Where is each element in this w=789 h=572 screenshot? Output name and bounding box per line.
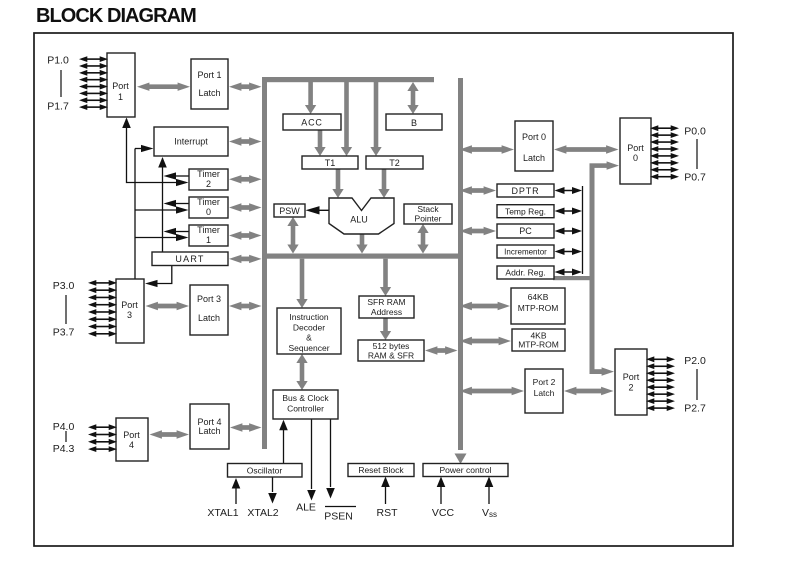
svg-text:0: 0 (633, 153, 638, 163)
svg-text:4: 4 (129, 440, 134, 450)
svg-text:Port 2: Port 2 (533, 377, 556, 387)
svg-text:PC: PC (519, 226, 532, 236)
svg-text:Latch: Latch (523, 153, 545, 163)
svg-text:P3.0: P3.0 (53, 280, 75, 292)
svg-text:MTP-ROM: MTP-ROM (518, 340, 559, 350)
svg-text:XTAL1: XTAL1 (207, 507, 238, 519)
svg-text:512 bytes: 512 bytes (373, 341, 410, 351)
svg-text:P2.7: P2.7 (684, 403, 706, 415)
svg-text:Reset Block: Reset Block (358, 465, 404, 475)
svg-text:Port 0: Port 0 (522, 132, 546, 142)
svg-text:Port: Port (623, 372, 640, 382)
svg-text:PSW: PSW (279, 206, 300, 216)
svg-text:ALE: ALE (296, 502, 316, 514)
svg-text:Latch: Latch (198, 313, 220, 323)
svg-text:Timer: Timer (197, 169, 220, 179)
svg-text:P3.7: P3.7 (53, 327, 75, 339)
svg-text:Port: Port (627, 143, 644, 153)
svg-text:0: 0 (206, 207, 211, 217)
svg-text:RAM & SFR: RAM & SFR (368, 351, 414, 361)
svg-text:Port 3: Port 3 (197, 294, 221, 304)
svg-text:1: 1 (118, 92, 123, 102)
svg-text:RST: RST (377, 507, 399, 519)
svg-text:T2: T2 (389, 158, 400, 168)
svg-text:3: 3 (127, 310, 132, 320)
svg-text:Timer: Timer (197, 225, 220, 235)
svg-text:P1.0: P1.0 (47, 55, 69, 67)
svg-text:SFR RAM: SFR RAM (367, 297, 405, 307)
svg-text:XTAL2: XTAL2 (247, 507, 278, 519)
svg-text:Temp Reg.: Temp Reg. (505, 207, 546, 217)
svg-text:BLOCK DIAGRAM: BLOCK DIAGRAM (36, 5, 196, 27)
svg-text:Port: Port (112, 81, 129, 91)
svg-text:Port 1: Port 1 (197, 70, 221, 80)
svg-text:VCC: VCC (432, 507, 455, 519)
svg-text:P0.7: P0.7 (684, 172, 706, 184)
svg-text:Address: Address (371, 307, 402, 317)
svg-text:Controller: Controller (287, 404, 324, 414)
svg-text:B: B (411, 118, 417, 128)
svg-text:64KB: 64KB (528, 292, 549, 302)
svg-text:Oscillator: Oscillator (247, 466, 283, 476)
svg-text:Port: Port (123, 430, 140, 440)
svg-text:Sequencer: Sequencer (288, 343, 329, 353)
svg-text:MTP-ROM: MTP-ROM (518, 303, 559, 313)
svg-text:P0.0: P0.0 (684, 126, 706, 138)
svg-text:P4.3: P4.3 (53, 443, 75, 455)
svg-text:Incrementor: Incrementor (504, 248, 547, 257)
svg-text:Pointer: Pointer (415, 214, 442, 224)
svg-text:Port: Port (121, 300, 138, 310)
svg-text:P4.0: P4.0 (53, 421, 75, 433)
svg-text:Decoder: Decoder (293, 323, 325, 333)
svg-text:2: 2 (206, 179, 211, 189)
svg-text:UART: UART (175, 254, 204, 264)
svg-text:Latch: Latch (534, 388, 555, 398)
svg-text:DPTR: DPTR (511, 186, 539, 196)
svg-text:1: 1 (206, 235, 211, 245)
svg-text:Instruction: Instruction (289, 312, 328, 322)
svg-text:Addr. Reg.: Addr. Reg. (505, 268, 545, 278)
svg-text:Timer: Timer (197, 197, 220, 207)
svg-text:Stack: Stack (417, 204, 439, 214)
svg-text:PSEN: PSEN (324, 511, 353, 523)
svg-text:Interrupt: Interrupt (174, 137, 208, 147)
svg-text:T1: T1 (325, 158, 336, 168)
svg-text:2: 2 (628, 383, 633, 393)
svg-text:Power control: Power control (440, 465, 492, 475)
svg-text:P1.7: P1.7 (47, 101, 69, 113)
svg-text:&: & (306, 333, 312, 343)
svg-text:Latch: Latch (198, 88, 220, 98)
svg-text:P2.0: P2.0 (684, 355, 706, 367)
svg-text:Latch: Latch (198, 426, 220, 436)
svg-text:ALU: ALU (350, 215, 368, 225)
svg-text:Bus & Clock: Bus & Clock (282, 393, 329, 403)
svg-text:ACC: ACC (301, 118, 322, 128)
